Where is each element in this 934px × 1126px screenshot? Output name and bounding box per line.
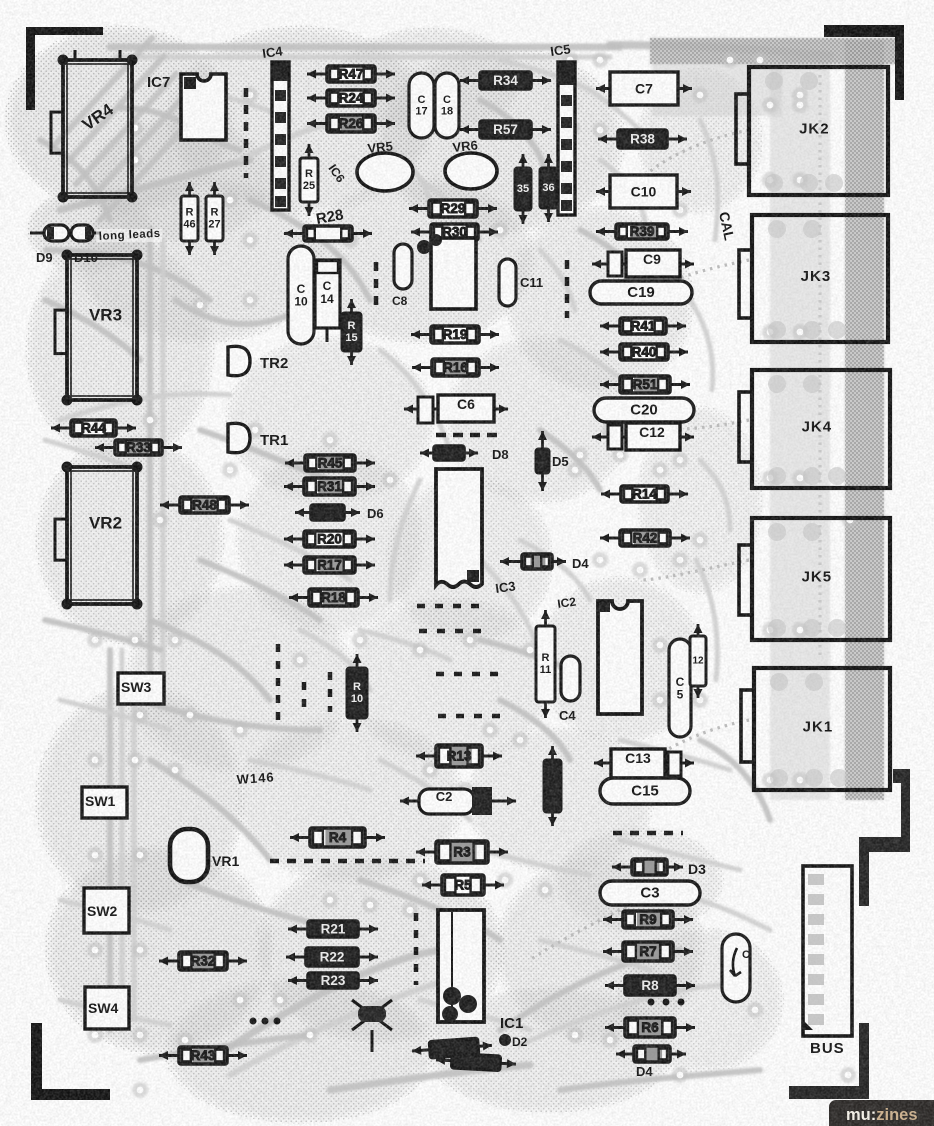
resistor R38: [598, 135, 687, 144]
resistor R5: [422, 881, 504, 890]
capacitor C20: [594, 398, 694, 422]
capacitor C10: [596, 187, 691, 196]
resistor R29: [409, 204, 497, 213]
resistor R24: [307, 94, 395, 103]
vertical dark resistor near C13: [548, 746, 557, 826]
resistor R36 (vertical): [544, 154, 553, 222]
capacitor C9: [592, 250, 694, 277]
switch SW2: [84, 888, 129, 933]
resistor R16: [412, 363, 499, 372]
switch SW3: [118, 673, 164, 704]
resistor R13: [416, 752, 502, 761]
resistor R6: [605, 1023, 695, 1032]
resistor R15 (vertical): [347, 299, 356, 365]
board corner bracket top-left: [26, 27, 103, 110]
capacitor C7: [596, 84, 692, 93]
board corner bracket top-right: [824, 25, 904, 100]
resistor R23: [288, 976, 378, 985]
resistor R47: [307, 70, 395, 79]
resistor R57: [460, 125, 551, 134]
resistor R12 (vertical): [694, 624, 703, 698]
capacitor C17: [409, 73, 434, 138]
diode D7 cluster: [352, 1000, 392, 1052]
resistor R51: [600, 380, 690, 389]
dashed line near C11: [565, 260, 570, 318]
trimmer VR1: [170, 829, 208, 882]
capacitor C15: [600, 778, 690, 804]
capacitor C4: [561, 656, 580, 701]
jack socket JK4: [739, 370, 890, 488]
resistor R4: [290, 833, 385, 842]
note long leads: [96, 229, 162, 242]
capacitor C13: [594, 749, 694, 778]
resistor R11 (vertical): [541, 610, 550, 718]
resistor R30: [411, 228, 498, 237]
solder pads (gray): [87, 52, 858, 1098]
resistor R10 (vertical): [353, 654, 362, 732]
capacitor C10 (axial vertical): [288, 246, 314, 344]
resistor R8: [605, 981, 695, 990]
diode D4: [500, 557, 566, 566]
capacitor C18: [435, 73, 459, 138]
diode D10: [71, 225, 93, 241]
resistor R46 (vertical): [185, 182, 194, 255]
capacitor C14 (vertical): [315, 260, 340, 342]
potentiometer VR3: [55, 250, 143, 406]
resistor R28: [284, 229, 372, 238]
resistor R25 (vertical): [305, 144, 314, 216]
capacitor C11: [499, 259, 516, 306]
IC IC5 (DIP strip): [558, 62, 575, 215]
switch SW1: [82, 787, 127, 818]
resistor R35 (vertical): [519, 154, 528, 224]
resistor R39: [596, 227, 688, 236]
resistor R43: [159, 1051, 247, 1060]
resistor R20: [284, 535, 375, 544]
capacitor C1 (vertical): [722, 934, 750, 1002]
diode D8: [420, 449, 478, 458]
resistor R32: [159, 957, 247, 966]
jack socket JK2: [736, 67, 888, 195]
diode D9: [30, 225, 100, 241]
jack socket JK3: [739, 215, 888, 342]
resistor R45: [285, 459, 375, 468]
capacitor C3: [600, 881, 700, 905]
resistor R41: [600, 322, 686, 331]
resistor R40: [600, 348, 688, 357]
IC IC4 (DIP strip): [272, 62, 289, 210]
diode D4 (bottom): [616, 1050, 686, 1059]
resistor R26: [307, 119, 395, 128]
capacitor C5: [669, 639, 691, 737]
potentiometer VR2: [55, 462, 143, 610]
resistor R42: [600, 534, 690, 543]
mu:zines watermark badge: [829, 1100, 934, 1126]
diode D5 (vertical): [538, 431, 547, 491]
board corner bracket bottom-right step: [789, 1023, 869, 1099]
resistor R19: [411, 330, 499, 339]
dotted signal traces: [530, 60, 820, 960]
IC IC2: [598, 601, 642, 714]
resistor R33: [95, 443, 182, 452]
trimmer VR6: [445, 153, 497, 189]
IC IC6: [417, 234, 476, 309]
trimmer VR5: [357, 153, 413, 191]
diode D6 (dark): [295, 508, 360, 517]
resistor R22: [286, 953, 378, 962]
dashed column near IC1: [414, 913, 419, 985]
dashed line below R4: [270, 859, 425, 864]
dashed outline IC4 right: [244, 88, 249, 178]
jack socket JK1: [741, 668, 890, 790]
halftone clouds: [10, 30, 780, 1120]
resistor R7: [603, 947, 693, 956]
halftone band right side: [650, 38, 900, 1036]
IC IC7: [181, 74, 226, 140]
diode D2 dot: [499, 1034, 511, 1046]
switch SW4: [85, 987, 129, 1029]
capacitor C8: [394, 244, 412, 289]
capacitor C12: [592, 423, 694, 450]
dashed line below C6: [436, 433, 498, 438]
resistor R44: [51, 424, 136, 433]
resistor R2 (dark): [436, 1053, 517, 1071]
capacitor C6: [404, 395, 508, 423]
dashed columns lower-left: [276, 644, 281, 722]
dashed line near C8: [374, 262, 379, 305]
transistor TR1: [228, 423, 250, 452]
resistor R31: [284, 482, 375, 491]
resistor R14: [601, 490, 688, 499]
BUS edge connector: [803, 866, 852, 1057]
dashed bus lines center: [417, 604, 482, 609]
board corner bracket bottom-left: [31, 1023, 110, 1100]
resistor R18: [289, 593, 378, 602]
IC IC3: [436, 469, 482, 587]
jack socket JK5: [739, 518, 890, 640]
resistor R48: [160, 501, 249, 510]
resistor R27 (vertical): [210, 182, 219, 255]
resistor R1 (dark): [412, 1037, 493, 1059]
copper trace background texture: [40, 38, 830, 1090]
wire VR4 top leads: [75, 50, 120, 60]
resistor R3: [416, 848, 508, 857]
transistor TR2: [228, 346, 250, 375]
potentiometer VR4: [51, 55, 138, 203]
diode D3: [612, 863, 683, 872]
resistor R17: [284, 561, 375, 570]
capacitor C19: [590, 281, 692, 304]
capacitor C2: [400, 787, 516, 815]
board edge step bracket right-middle: [859, 769, 910, 906]
IC IC1: [438, 910, 484, 1022]
junction dots: [250, 999, 685, 1025]
resistor R9: [603, 915, 693, 924]
resistor R34: [460, 76, 551, 85]
resistor R21: [288, 925, 378, 934]
